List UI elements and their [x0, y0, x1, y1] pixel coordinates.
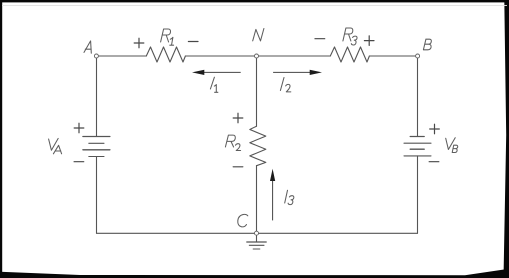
- label node N: [253, 29, 264, 41]
- ground: [247, 235, 266, 249]
- label node A: [84, 41, 91, 53]
- plus sign VA: [74, 123, 84, 133]
- node B: [416, 54, 420, 58]
- node A: [94, 54, 98, 58]
- battery VB: [404, 137, 431, 156]
- wire left branch upper: [96, 56, 98, 137]
- plus sign VB: [430, 124, 440, 134]
- plus sign R3: [364, 36, 374, 46]
- label R3: [343, 28, 353, 41]
- battery VA: [83, 137, 110, 157]
- label VA: [49, 138, 59, 150]
- node C: [255, 231, 259, 235]
- minus sign R3: [315, 38, 325, 40]
- wire R3 to B: [369, 55, 417, 57]
- label node C: [238, 214, 248, 226]
- minus sign R1: [188, 41, 198, 43]
- minus sign VB: [429, 161, 439, 163]
- label VB: [446, 138, 456, 150]
- label R1: [161, 29, 171, 42]
- label I2: [280, 78, 284, 91]
- current arrow I1: [192, 70, 241, 75]
- resistor R2: [250, 126, 266, 166]
- wire middle branch lower: [256, 166, 258, 234]
- plus sign R1: [134, 38, 144, 48]
- node N: [255, 54, 259, 58]
- wire middle branch upper: [256, 56, 258, 126]
- wire left branch lower: [96, 157, 98, 234]
- resistor R3: [330, 47, 369, 62]
- wire top A to R1: [96, 55, 146, 57]
- current arrow I2: [273, 70, 322, 75]
- faint scan line: [2, 4, 507, 7]
- label I1: [210, 77, 214, 89]
- minus sign VA: [74, 161, 84, 163]
- minus sign R2: [233, 166, 243, 168]
- wire bottom: [97, 232, 418, 234]
- plus sign R2: [233, 113, 243, 123]
- label R2: [225, 135, 235, 147]
- resistor R1: [146, 47, 185, 62]
- wire right branch lower: [417, 156, 419, 233]
- wire right branch upper: [417, 56, 419, 137]
- wire R1 to N to R3: [185, 55, 330, 57]
- current arrow I3: [270, 169, 275, 221]
- label I3: [285, 190, 288, 203]
- label node B: [423, 39, 431, 50]
